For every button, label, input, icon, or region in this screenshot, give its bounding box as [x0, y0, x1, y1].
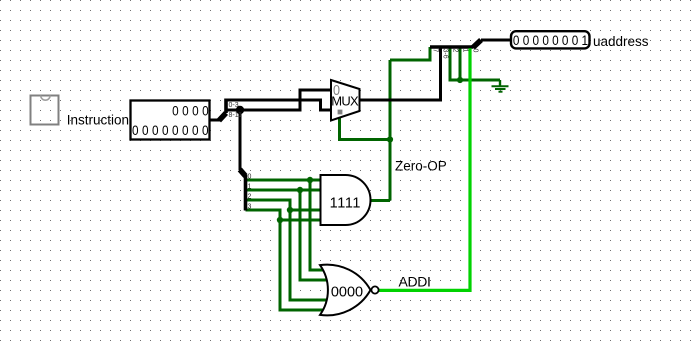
svg-text:Instruction: Instruction: [67, 112, 129, 127]
wire MUX output to uaddress bits 3-6: [358, 47, 441, 100]
node AND in4 branch: [277, 217, 283, 223]
svg-text:2: 2: [452, 49, 459, 53]
svg-text:2: 2: [248, 194, 252, 201]
svg-text:Zero-OP: Zero-OP: [395, 159, 447, 174]
junction black 8-11: [236, 106, 244, 114]
node AND in1 branch: [307, 177, 313, 183]
wire vertical bit1 to NOR input2: [300, 190, 328, 280]
wire Instruction pin to splitter S1: [209, 119, 220, 122]
select pin marker: [338, 110, 343, 115]
black bus wires: [209, 40, 512, 170]
wire 8-11 riser to splitter S2: [239, 110, 242, 170]
splitter S2: [240, 170, 246, 211]
wire ground net horizontal: [460, 79, 500, 82]
wire S2 leg3 to AND input4: [246, 210, 325, 220]
svg-text:3: 3: [248, 204, 252, 211]
svg-text:7: 7: [432, 49, 439, 53]
junction dots dark green: [277, 77, 463, 223]
svg-text:0: 0: [472, 49, 479, 53]
svg-text:1: 1: [462, 49, 469, 53]
wire MUX select to Zero-OP net: [340, 113, 391, 140]
subcircuit box: [31, 96, 59, 125]
wire S2 leg2 to AND input3: [246, 200, 325, 210]
pin uaddress (8-bit output): [511, 31, 590, 48]
NOR gate U2 0000: [320, 265, 379, 316]
splitter S3 uaddress: [430, 40, 481, 48]
wire bit1 leg: [459, 47, 462, 80]
svg-text:1111: 1111: [330, 195, 361, 211]
wire 8-11 net to MUX upper input: [226, 90, 332, 110]
bright green (logic 1) wires: [379, 48, 470, 290]
node AND in3 branch: [287, 207, 293, 213]
wire bit2 leg to ground net: [450, 47, 460, 80]
wire 0-3 net to MUX lower input: [226, 100, 332, 110]
svg-text:0: 0: [248, 174, 252, 181]
svg-text:0-3: 0-3: [229, 102, 239, 109]
wire S2 leg0 to AND input1: [246, 179, 325, 182]
wire splitter S3 to uaddress pin: [481, 39, 512, 42]
svg-text:uaddress: uaddress: [593, 34, 649, 49]
ground symbol: [492, 80, 509, 92]
node ground junction: [457, 77, 463, 83]
wire Zero-OP riser: [389, 60, 392, 201]
svg-text:8-11: 8-11: [229, 112, 243, 119]
wire S2 leg1 to AND input2: [246, 189, 325, 192]
splitter S1: [219, 99, 226, 121]
wire AND output to riser: [369, 199, 390, 202]
AND gate U1 1111: [321, 175, 371, 225]
wire ADDI net riser: [379, 48, 470, 290]
svg-text:ADDI: ADDI: [399, 274, 431, 290]
wire vertical bit2 to NOR input3: [290, 210, 328, 300]
svg-text:MUX: MUX: [331, 94, 359, 109]
svg-text:1: 1: [248, 184, 252, 191]
svg-text:0000: 0000: [331, 284, 363, 300]
dark green (logic 0) wires: [246, 47, 501, 310]
node Zero-OP junction: [387, 136, 393, 142]
node AND in2 branch: [297, 187, 303, 193]
mux U3: [331, 80, 360, 121]
wire vertical bit3 to NOR input4: [280, 220, 328, 310]
pin Instruction (12-bit input): [131, 101, 210, 140]
wire bit7 net: splitter leg to Zero-OP riser: [390, 47, 430, 60]
svg-text:3-6: 3-6: [442, 49, 449, 59]
wire vertical bit0 to NOR input1: [310, 180, 328, 270]
